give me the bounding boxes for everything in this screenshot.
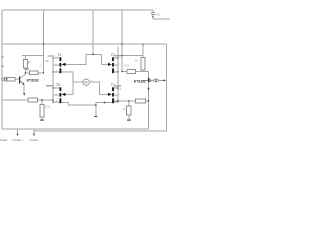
wire T1 stubs (53, 57, 60, 59)
wire bottom middle run (61, 101, 135, 105)
svg-text:+: + (90, 78, 92, 82)
resistor R2 (horizontal) (30, 71, 38, 75)
wire Q2 emitter drop to bus1 (148, 82, 150, 129)
wire vertical gate feed from bus (92, 10, 94, 54)
bottom terminal labels (0, 138, 40, 142)
svg-text:4.7k: 4.7k (124, 63, 130, 67)
resistor R3 (input of feedback row) (28, 98, 38, 102)
svg-text:Серво -: Серво - (29, 138, 40, 142)
svg-text:10k: 10k (45, 59, 50, 63)
label T4 part no (115, 85, 121, 86)
label T3 part no (46, 85, 54, 86)
wire top-right link (153, 18, 170, 20)
lamp / connector HL1 (153, 79, 158, 82)
wire Q2 base stub (144, 79, 148, 81)
wire T1 drain extension to motor node (61, 72, 73, 95)
wire vertical from bus to R1 network (43, 10, 45, 73)
junction dots (25, 43, 165, 105)
ground arrow top right (152, 16, 154, 19)
wire collector row y=72.8 (25, 72, 43, 74)
wire left border rail (1, 10, 3, 129)
wire T1/T3 left column (52, 58, 54, 104)
capacitor C2 (top right) (151, 13, 155, 15)
terminal input circle (2, 78, 5, 81)
sense terminal dash mid (94, 116, 97, 118)
wire R8 stems (128, 101, 130, 106)
svg-text:Серво +: Серво + (12, 138, 24, 142)
wire Q1 emitter drop (23, 85, 25, 93)
transistor Q1 KT3102 (left) (19, 76, 24, 85)
resistor R4 (hanging sense, left) (40, 105, 44, 118)
wire T2 stubs (114, 57, 118, 59)
wire T1 gate run to T2 (65, 54, 107, 64)
resistor R6 (emitter row) (136, 99, 146, 103)
resistor R1 (vertical, collector load) (23, 60, 27, 68)
resistor R5 (right row horizontal) (127, 69, 136, 73)
resistor R9 (input series) (7, 77, 15, 80)
svg-text:KT3102: KT3102 (27, 78, 39, 82)
value labels (24, 7, 160, 111)
wire bottom bus 2 (34, 130, 167, 132)
left border tick marks (1, 56, 4, 58)
motor M1 (83, 79, 89, 85)
svg-text:бщий: бщий (0, 138, 7, 142)
wire sense stub drop (95, 105, 97, 116)
arrow Q2 emitter (147, 88, 149, 91)
pin number labels (56, 57, 121, 102)
resistor R7 (right vertical) (141, 58, 145, 71)
wire lamp row to right rail (149, 79, 153, 81)
wire bottom terminal arrow 2 (33, 129, 35, 134)
wire T3 gate (65, 93, 73, 95)
svg-text:+: + (17, 74, 19, 77)
resistor R8 (hanging sense, right) (127, 106, 131, 115)
svg-text:+: + (40, 65, 42, 68)
wire motor right lead (89, 82, 99, 94)
wire input to base (6, 78, 7, 80)
svg-text:0.1: 0.1 (118, 87, 122, 91)
wire motor left lead (73, 81, 83, 83)
svg-text:1: 1 (119, 94, 121, 96)
wire right border rail (165, 44, 167, 130)
wire top supply bus (2, 9, 153, 11)
ground arrow Q1 emitter (23, 93, 25, 96)
wire R6 right stub (146, 100, 149, 102)
svg-text:1k: 1k (123, 107, 126, 111)
wire T4 stubs (114, 87, 118, 89)
wire R1 top branch (22, 55, 44, 57)
svg-text:1k: 1k (135, 59, 138, 63)
wire R4 stems (41, 100, 43, 105)
wire long horizontal y=44 (2, 43, 166, 45)
wire bottom bus 1 (2, 128, 149, 130)
wire Q2 collector riser (148, 72, 150, 78)
label R2 dash (24, 69, 29, 70)
transistor T1 (mosfet, channel + arrow) (60, 57, 66, 73)
wire R1 stems (24, 56, 26, 60)
svg-text:+: + (155, 7, 157, 10)
svg-text:T1: T1 (57, 53, 61, 57)
wire T2/T4 right column from bus (121, 10, 123, 72)
wire T4 gate (100, 93, 108, 95)
wire bottom terminal arrow 1 (17, 129, 19, 134)
wire top-right cap stem (152, 10, 154, 12)
transistor T4 (mosfet, mirrored) (108, 87, 114, 103)
svg-text:1: 1 (119, 64, 121, 66)
transistor Q2 KT3102 (right) (148, 78, 151, 82)
label T2 part no (115, 55, 121, 56)
wire R7 branch y=55.5 (122, 55, 143, 57)
wire T3 stubs (53, 87, 60, 89)
bottom arrow head 2 (33, 134, 35, 137)
bottom arrow head 1 (16, 134, 18, 137)
wire Q1 collector (20, 73, 25, 78)
svg-text:0.22: 0.22 (45, 104, 51, 108)
capacitor C1 (input) (5, 77, 7, 82)
wire feedback row y=100 (2, 99, 28, 101)
wire right network row y=71.5 (122, 71, 127, 73)
label T1 part dash (48, 55, 55, 56)
sense terminal dash right (127, 119, 131, 121)
svg-text:1k: 1k (28, 60, 31, 64)
svg-text:KT3102: KT3102 (134, 79, 146, 83)
svg-text:47u: 47u (156, 12, 161, 16)
sense terminal dash left (40, 119, 44, 121)
transistor T3 (mosfet) (60, 87, 66, 103)
svg-text:M: M (85, 81, 88, 85)
transistor T2 (mosfet, mirrored) (108, 57, 114, 73)
